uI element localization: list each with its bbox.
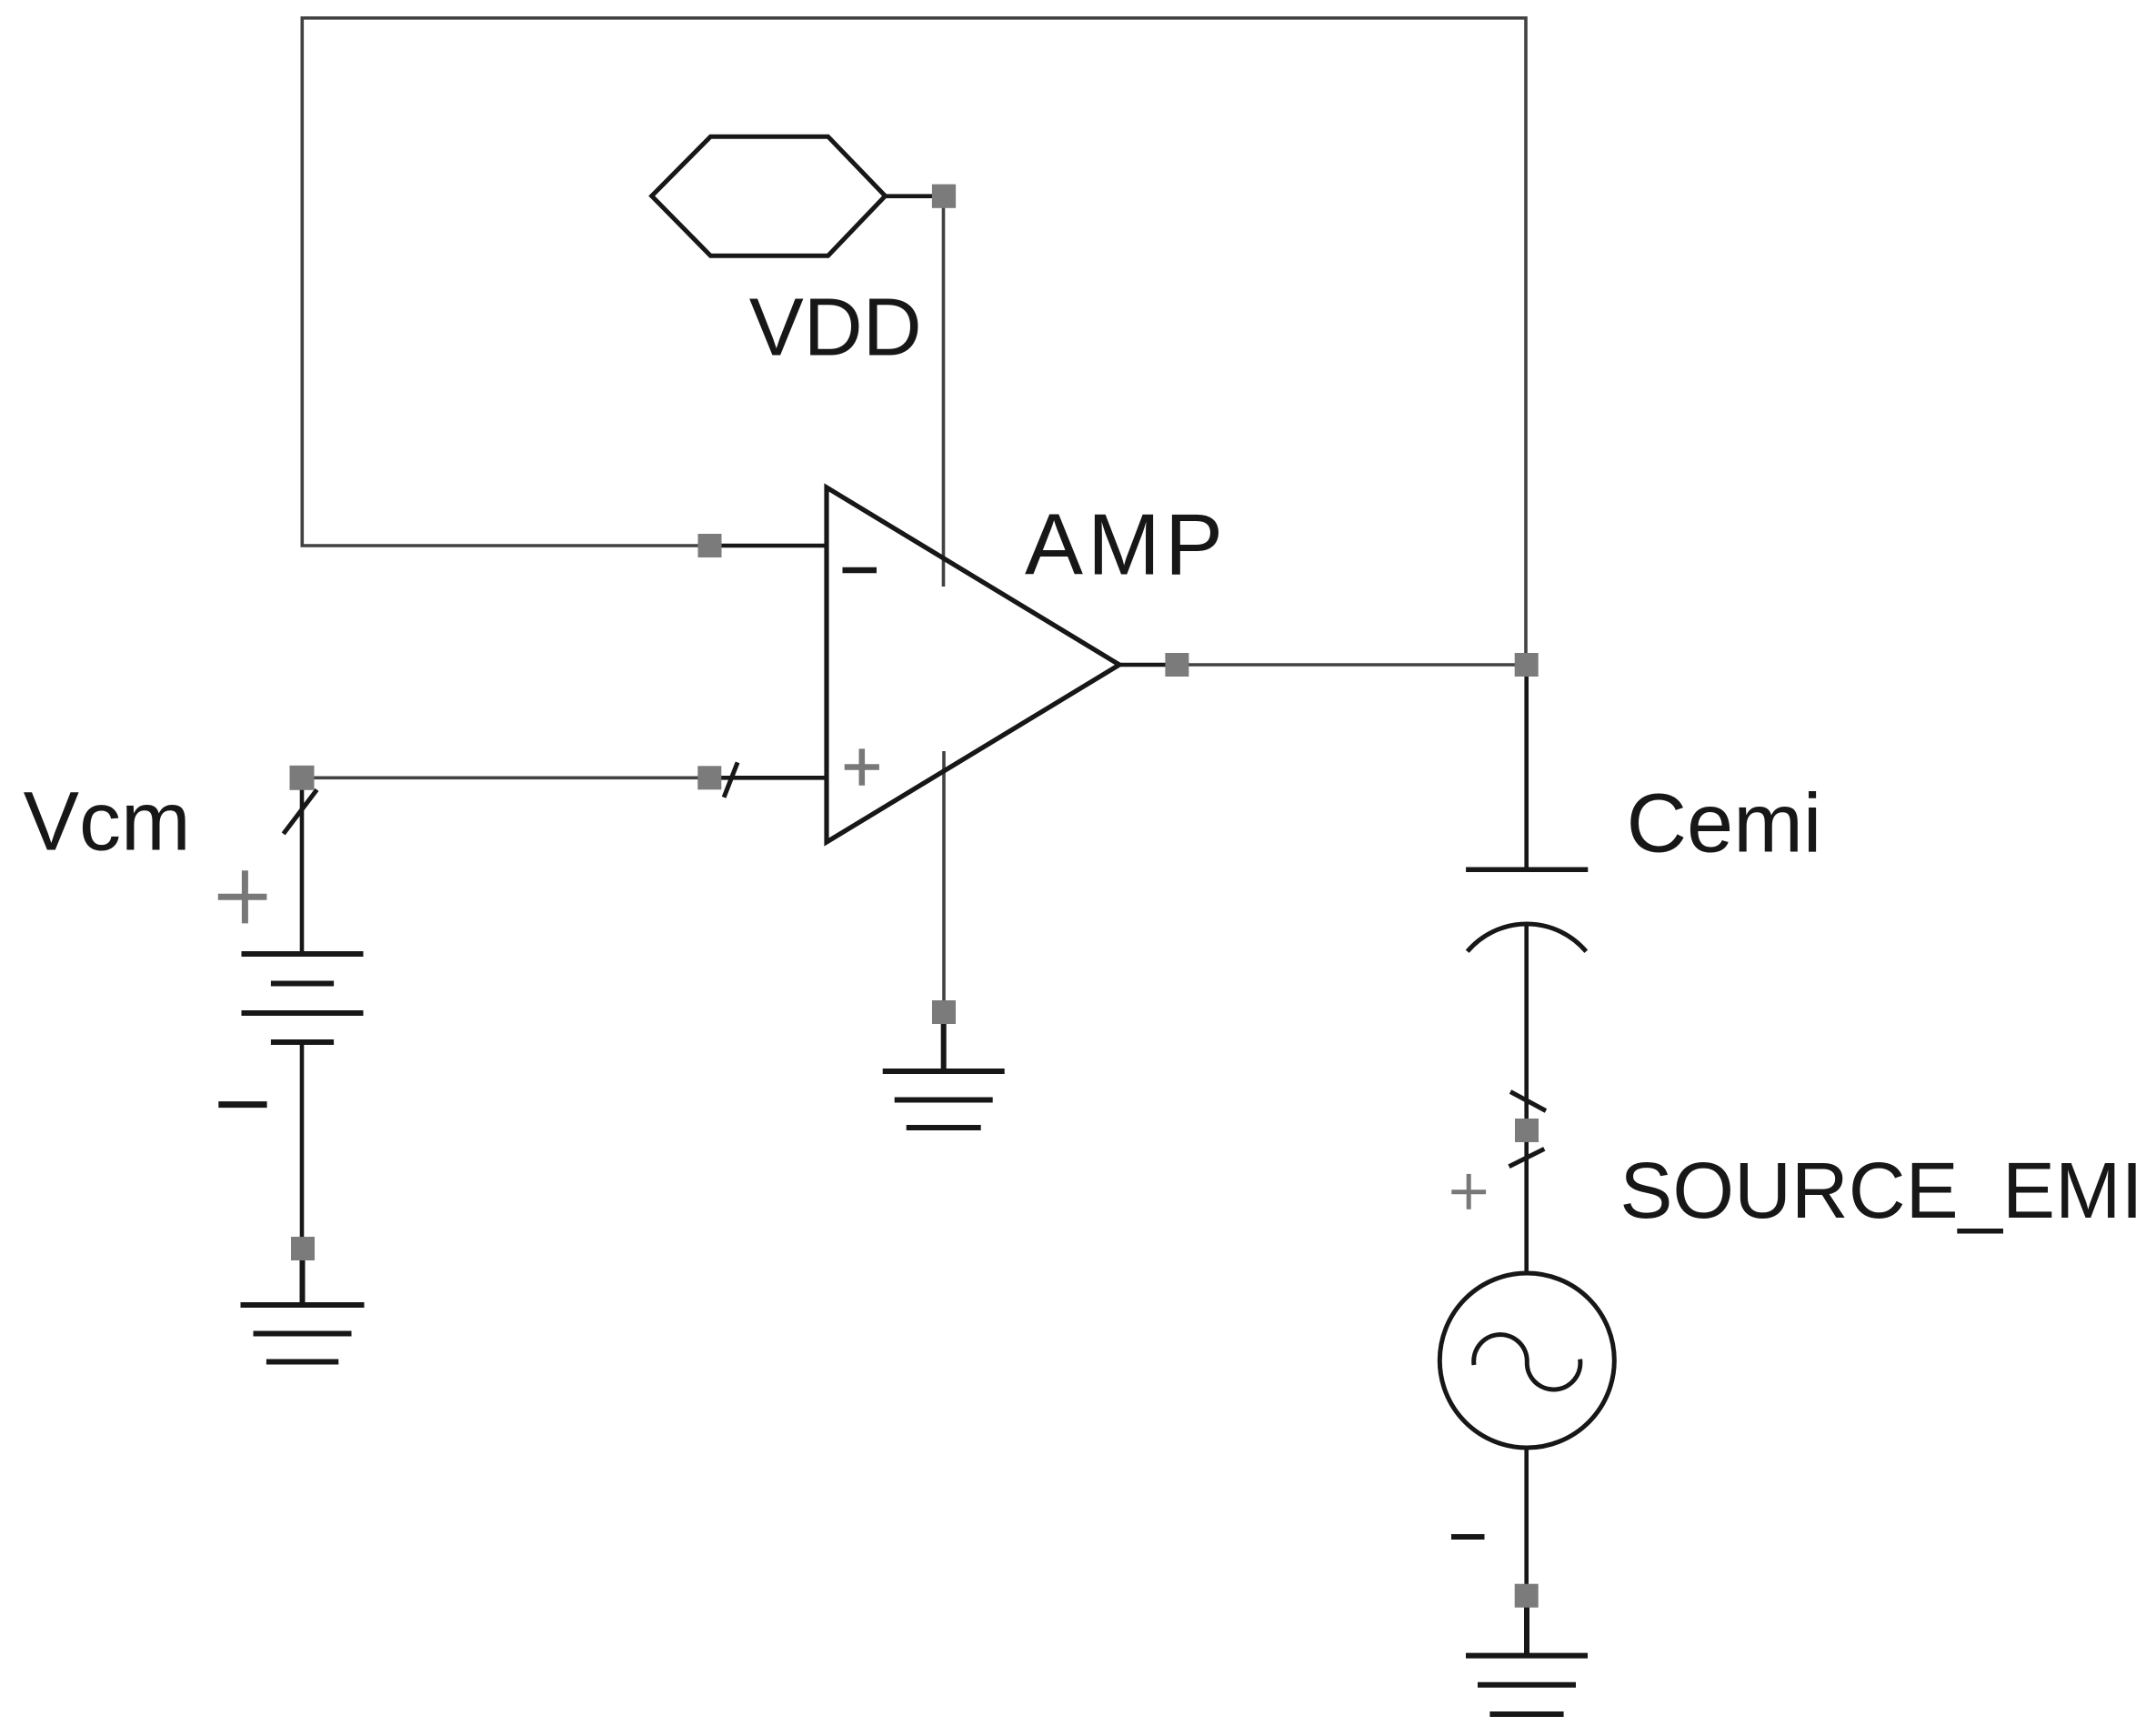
capacitor Cemi top plate [1466,868,1588,873]
net tick above SOURCE_EMI plus node [1510,1092,1546,1111]
pin: AMP output stub [1119,663,1177,667]
wire: AMP output to right vertical branch [1177,663,1526,667]
node: inverting input junction [698,534,722,557]
node: non-inverting input junction [697,766,721,789]
node: Cemi / SOURCE_EMI junction [1515,1119,1539,1142]
wire: feedback loop from inverting input up over the top to the output [302,18,1526,665]
op-amp AMP non-inverting input '+' marker [845,748,879,785]
sine source SOURCE_EMI circle [1439,1273,1614,1448]
pin: Vcm negative terminal down to ground node [300,1042,305,1249]
SOURCE_EMI plus sign [1451,1174,1486,1209]
wire: Vcm plus terminal to AMP non-inverting input [302,776,709,779]
wire: VDD node down to AMP positive supply pin [942,196,946,587]
pin: Cemi bottom plate down to node [1524,925,1529,1130]
pin: SOURCE_EMI bottom terminal down to ground node [1524,1447,1529,1596]
battery Vcm minus sign [218,1101,266,1108]
node: Vcm ground junction [291,1237,315,1260]
net tick at Vcm plus junction [284,789,317,834]
wire: AMP negative supply pin down to ground node [942,751,946,1012]
battery Vcm plus sign [218,870,267,923]
pin: output node down to Cemi top plate [1524,665,1529,869]
node: SOURCE_EMI ground junction [1515,1584,1539,1608]
ground (Vcm) [241,1249,365,1362]
node: output / Cemi junction [1515,653,1539,677]
pin: AMP non-inverting input stub [709,776,827,780]
svg-text:Cemi: Cemi [1627,778,1822,870]
SOURCE_EMI minus sign [1451,1534,1485,1540]
battery Vcm plates [242,954,364,1042]
net tick below SOURCE_EMI plus node [1509,1149,1545,1166]
VDD hexagon power symbol [652,136,886,256]
sine source SOURCE_EMI sine wave [1474,1335,1580,1390]
node: junction VDD pin / supply wire [932,185,956,208]
pin: Vcm positive terminal [300,778,305,954]
pin: VDD hexagon stub to node [885,194,945,198]
capacitor Cemi curved bottom plate [1468,924,1587,951]
svg-text:VDD: VDD [749,283,922,374]
svg-text:Vcm: Vcm [24,776,191,868]
node: Vcm plus junction [290,766,315,790]
pin: AMP inverting input stub [710,544,827,548]
op-amp AMP inverting input '-' marker [843,567,877,574]
op-amp AMP triangle [827,487,1119,842]
pin: node down to SOURCE_EMI circle [1524,1130,1529,1275]
node: AMP ground junction [932,1000,956,1024]
net tick at non-inverting input junction [724,762,737,797]
svg-text:SOURCE_EMI: SOURCE_EMI [1620,1147,2142,1235]
node: AMP output junction [1165,653,1188,677]
svg-text:AMP: AMP [1025,497,1228,594]
ground (SOURCE_EMI) [1466,1596,1588,1714]
ground (AMP negative supply) [883,1012,1005,1128]
